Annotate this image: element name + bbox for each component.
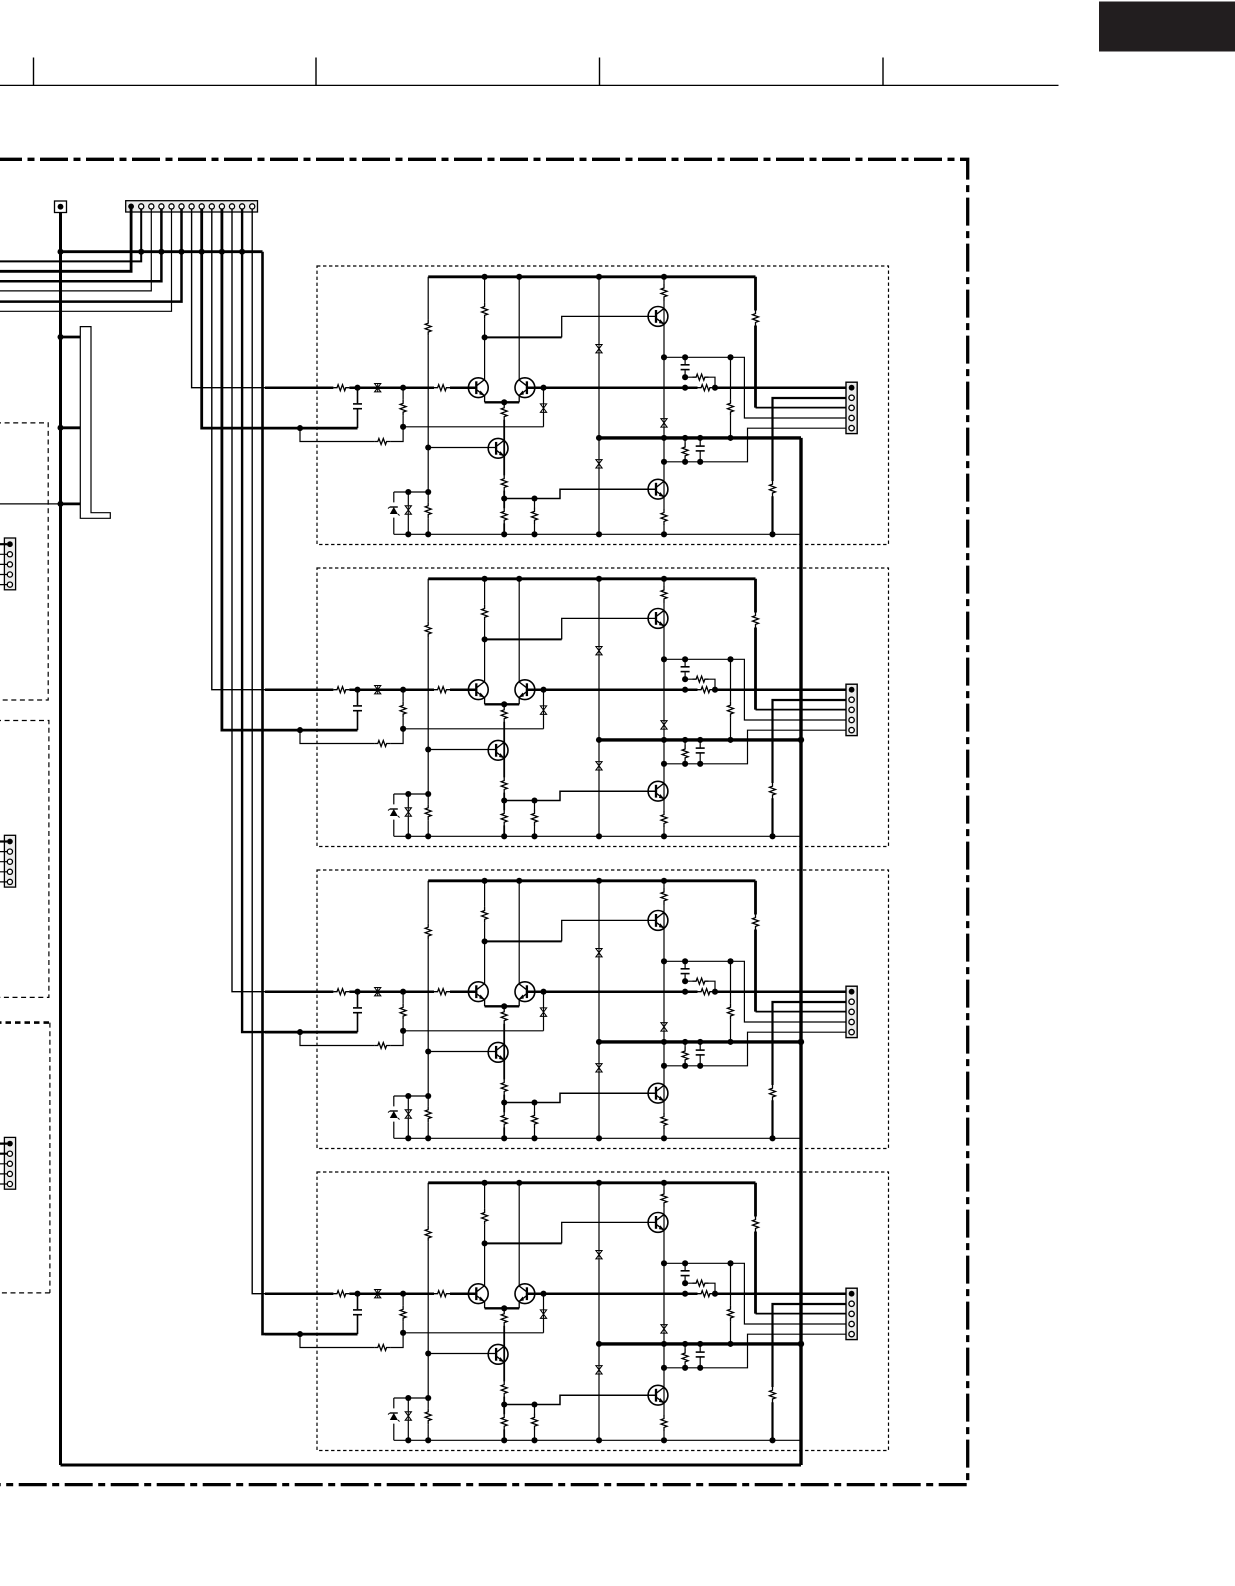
bottom return thick wire (61, 1464, 802, 1467)
flat cable bracket outline (80, 327, 110, 519)
wire pin7 bundle to block1 signal (192, 209, 265, 388)
wire pin5 to left (0, 209, 172, 311)
ground pad square (55, 201, 67, 213)
ground stub 3 with left wire (0, 501, 80, 507)
wire pin2 to left (0, 209, 141, 261)
junction dot block2 output joins bus (798, 737, 804, 743)
ruler tick 4 (882, 58, 884, 86)
ground stub 1 (58, 334, 81, 340)
junction dot block3 output joins bus (798, 1039, 804, 1045)
output bus thick vertical wire (799, 438, 802, 1465)
page corner black tab (1099, 2, 1235, 52)
header ruler line (0, 84, 1059, 86)
left dashed box 3 (0, 1023, 50, 1293)
junction dots on ground bus (58, 249, 246, 255)
left dashed box 1 (0, 423, 48, 700)
amplifier channel block 4 (265, 1172, 889, 1451)
wire pin1 to left (0, 209, 131, 271)
wire pin8 bundle to block1 ground (202, 209, 265, 428)
ground stub 2 (58, 425, 81, 431)
wire pin13 bundle to block4 signal (252, 209, 265, 1294)
wire pin9 bundle to block2 signal (212, 209, 265, 690)
junction dot block4 output joins bus (798, 1341, 804, 1347)
wire pin6 to left (0, 209, 182, 302)
ruler tick 1 (33, 58, 35, 86)
wire pin10 bundle to block2 ground (222, 209, 265, 730)
connector P3 left 5-pin (0, 1137, 16, 1189)
connector P2 left 5-pin (0, 835, 16, 887)
ruler tick 2 (315, 58, 317, 86)
amplifier channel block 1 (265, 266, 889, 545)
wire pin12 bundle to block3 ground (242, 209, 265, 1032)
outer shield dash-dot box (0, 159, 968, 1484)
wire pin3 to left (0, 209, 151, 291)
connector P1 left 5-pin (0, 538, 16, 590)
left dashed box 2 (0, 721, 49, 998)
ruler tick 3 (599, 58, 601, 86)
amplifier channel block 2 (265, 568, 889, 847)
connector J1 13-pin header (126, 201, 258, 212)
wire pin11 bundle to block3 signal (232, 209, 265, 992)
ground bus horizontal wire (61, 250, 263, 253)
ground main vertical wire (59, 213, 62, 1466)
wire pin4 to left (0, 209, 161, 281)
amplifier channel block 3 (265, 870, 889, 1149)
wire bus end down to block4 ground (263, 252, 266, 1334)
